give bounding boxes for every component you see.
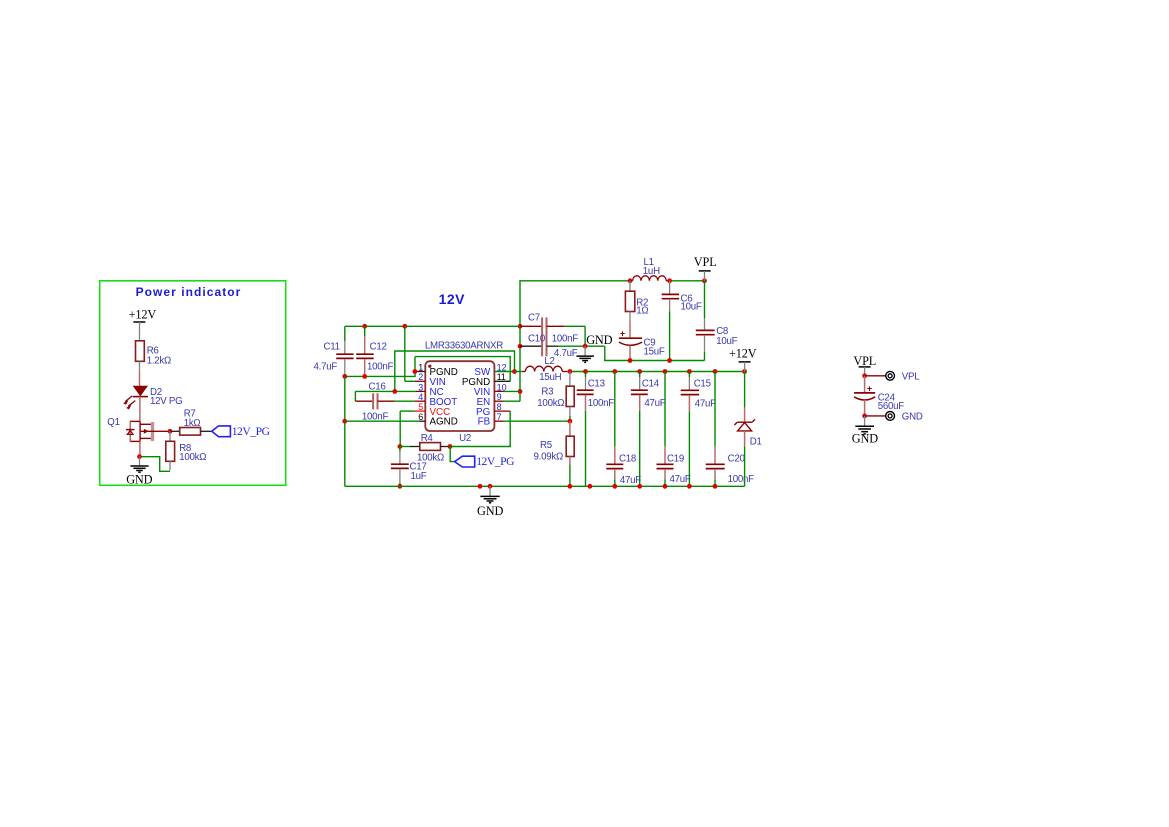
svg-text:4: 4 (418, 392, 423, 402)
capacitor C17 (399, 447, 401, 452)
svg-text:VPL: VPL (853, 354, 876, 368)
wire left rail down (344, 376, 346, 486)
SECTION: output connectors (852, 354, 923, 445)
wire row y376 (345, 357, 415, 377)
capacitor C20 (714, 372, 716, 447)
svg-text:C12: C12 (370, 342, 387, 353)
svg-text:12V_PG: 12V_PG (232, 425, 271, 438)
resistor R8 (169, 431, 171, 441)
svg-text:6: 6 (418, 412, 423, 422)
ground GND (139, 457, 141, 466)
pin 11 PGND (494, 380, 510, 382)
svg-text:100kΩ: 100kΩ (179, 452, 206, 463)
pin 10 VIN (494, 390, 503, 392)
wire pin2 riser (404, 326, 406, 381)
svg-text:1uF: 1uF (411, 471, 427, 482)
svg-text:C13: C13 (588, 378, 605, 389)
svg-text:R5: R5 (540, 440, 552, 451)
node VPL (862, 373, 867, 378)
node rail A / C7 column (518, 324, 523, 329)
connector pin GND (886, 412, 895, 421)
pin 2 VIN (405, 380, 415, 382)
svg-text:10uF: 10uF (716, 336, 737, 347)
resistor R7 (170, 430, 180, 432)
svg-text:C14: C14 (642, 378, 660, 389)
capacitor C15 (688, 372, 690, 378)
wire C7 right down (584, 326, 586, 346)
svg-text:10: 10 (497, 382, 507, 392)
node pin10 junction (518, 389, 523, 394)
wire1 y351 (395, 351, 515, 391)
svg-text:1kΩ: 1kΩ (184, 418, 201, 429)
svg-text:C15: C15 (694, 378, 711, 389)
svg-text:C7: C7 (528, 312, 540, 323)
pin 1 PGND (415, 371, 425, 373)
svg-text:GND: GND (902, 412, 923, 423)
wire D2 to Q1 (139, 397, 141, 422)
svg-text:11: 11 (497, 372, 506, 382)
svg-text:1: 1 (418, 362, 423, 372)
connector pin VPL (886, 371, 895, 380)
svg-text:5: 5 (418, 402, 423, 412)
svg-text:2: 2 (418, 372, 423, 382)
resistor R4 (398, 444, 403, 449)
pin 3 NC (355, 390, 415, 392)
svg-text:100kΩ: 100kΩ (537, 398, 564, 409)
pin 5 VCC (400, 410, 415, 412)
capacitor C13 (585, 372, 587, 378)
svg-text:GND: GND (586, 333, 612, 347)
svg-text:47uF: 47uF (695, 398, 716, 409)
wire VCC riser (399, 411, 401, 446)
svg-text:R3: R3 (541, 386, 553, 397)
svg-text:47uF: 47uF (644, 398, 665, 409)
svg-text:8: 8 (497, 402, 502, 412)
svg-text:GND: GND (126, 472, 152, 486)
svg-text:U2: U2 (459, 433, 471, 444)
node GND (862, 414, 867, 419)
pin 4 BOOT / capacitor C16 (354, 391, 356, 401)
svg-text:12V: 12V (439, 291, 466, 307)
svg-text:12V PG: 12V PG (150, 396, 182, 407)
svg-text:C18: C18 (619, 453, 636, 464)
frame Power indicator box (100, 281, 286, 486)
svg-text:10uF: 10uF (681, 301, 702, 312)
inductor L2 (515, 371, 522, 373)
netflag 12V_PG (212, 426, 231, 437)
svg-text:15uF: 15uF (644, 347, 665, 358)
capacitor C10 (520, 345, 542, 347)
svg-text:Power indicator: Power indicator (136, 285, 242, 299)
svg-text:1.2kΩ: 1.2kΩ (147, 355, 171, 366)
svg-text:47uF: 47uF (670, 474, 691, 485)
wire to GND connector (865, 415, 886, 417)
inductor L1 (628, 278, 633, 283)
wire2 y356 (415, 357, 510, 382)
svg-text:100nF: 100nF (552, 333, 579, 344)
resistor R2 (629, 281, 631, 291)
wire L1 to VPL (670, 280, 705, 282)
svg-text:4.7uF: 4.7uF (554, 348, 578, 359)
capacitor C18 (614, 372, 616, 447)
svg-text:+: + (620, 329, 625, 339)
svg-text:GND: GND (477, 504, 503, 518)
svg-text:7: 7 (497, 412, 502, 422)
capacitor C12 (364, 326, 366, 336)
ground GND mid (584, 346, 586, 356)
svg-text:+12V: +12V (729, 346, 757, 360)
svg-text:C11: C11 (324, 342, 340, 353)
pin 8 PG (494, 410, 510, 412)
svg-text:15uH: 15uH (539, 372, 561, 383)
junction node GND/Q1 source (137, 454, 142, 459)
op-amp U2 LMR33630ARNXR body (425, 361, 494, 431)
svg-text:+: + (867, 383, 872, 393)
transistor Q1 (107, 417, 170, 457)
svg-text:1Ω: 1Ω (636, 306, 648, 317)
svg-text:Q1: Q1 (107, 417, 119, 428)
wire PG loop (450, 411, 510, 446)
resistor R5 (569, 421, 571, 436)
pin 6 AGND (345, 420, 419, 422)
svg-text:9.09kΩ: 9.09kΩ (534, 452, 563, 463)
svg-text:C19: C19 (667, 454, 684, 465)
junction node Q1/R7/R8 (168, 429, 173, 434)
svg-text:9: 9 (497, 392, 502, 402)
pin 9 EN (494, 400, 503, 402)
SECTION: power indicator (100, 281, 286, 487)
capacitor C14 (639, 372, 641, 378)
capacitor C11 (344, 326, 346, 341)
svg-text:C16: C16 (369, 381, 386, 392)
wire to VPL connector (865, 375, 886, 377)
svg-text:C10: C10 (528, 333, 546, 344)
svg-text:R4: R4 (421, 433, 434, 444)
svg-text:AGND: AGND (430, 417, 458, 428)
svg-text:100nF: 100nF (367, 361, 394, 372)
wire top rail y326 (345, 325, 520, 327)
svg-text:L2: L2 (544, 356, 554, 367)
pin 12 SW (494, 371, 514, 373)
wire R6 to D2 (139, 361, 141, 371)
wire R7 to flag (201, 430, 212, 432)
capacitor C8 (704, 281, 706, 318)
svg-text:VPL: VPL (694, 255, 717, 269)
pin 7 FB (494, 420, 503, 422)
netflag 12V_PG right (450, 447, 454, 462)
diode D1 zener (744, 372, 746, 408)
capacitor C7 (520, 325, 542, 327)
resistor R6 (136, 341, 145, 362)
wire rail A top (520, 281, 630, 401)
capacitor C24 polarized (864, 376, 866, 392)
capacitor C6 (669, 281, 671, 294)
svg-text:GND: GND (852, 432, 878, 446)
svg-text:LMR33630ARNXR: LMR33630ARNXR (425, 340, 503, 351)
svg-text:100nF: 100nF (588, 398, 615, 409)
svg-text:C20: C20 (728, 454, 746, 465)
capacitor C19 (664, 372, 666, 447)
SECTION: buck converter (314, 255, 762, 518)
svg-text:D1: D1 (750, 437, 762, 448)
svg-text:12V_PG: 12V_PG (476, 455, 515, 468)
wire rail B (567, 371, 744, 373)
wire bottom rail (345, 485, 745, 487)
svg-text:12: 12 (497, 362, 507, 372)
ground GND bottom (489, 486, 491, 496)
svg-text:1uH: 1uH (643, 266, 660, 277)
svg-text:3: 3 (418, 382, 423, 392)
ground GND right (864, 416, 866, 426)
pin 1 indicator dot (428, 365, 431, 368)
svg-text:4.7uF: 4.7uF (314, 361, 338, 372)
svg-text:+12V: +12V (129, 307, 157, 321)
LED D2 (133, 386, 148, 397)
svg-text:VPL: VPL (902, 371, 920, 382)
svg-text:560uF: 560uF (878, 401, 905, 412)
resistor R3 (569, 372, 571, 387)
svg-text:100nF: 100nF (728, 474, 755, 485)
svg-text:FB: FB (478, 417, 491, 428)
wire R8 bottom to GND node (141, 457, 170, 472)
wire sub-rail gnd row (605, 346, 705, 360)
